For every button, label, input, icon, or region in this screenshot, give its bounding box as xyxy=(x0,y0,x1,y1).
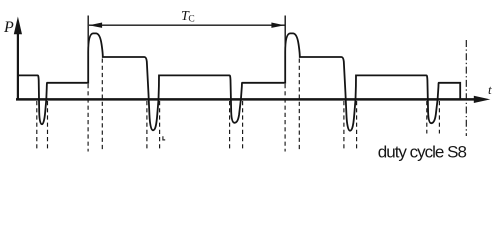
svg-text:duty cycle S8: duty cycle S8 xyxy=(378,143,467,162)
svg-text:C: C xyxy=(188,14,194,24)
svg-text:P: P xyxy=(3,19,14,36)
svg-text:t: t xyxy=(488,82,492,97)
